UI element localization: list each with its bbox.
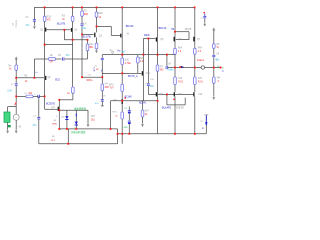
svg-text:W?2: W?2 (109, 84, 114, 86)
svg-text:BUL#R2: BUL#R2 (162, 106, 172, 109)
svg-text:7M: 7M (171, 29, 174, 31)
svg-text:BC1#5: BC1#5 (125, 97, 133, 99)
svg-text:4.7Ru: 4.7Ru (125, 63, 132, 65)
svg-text:0.68u: 0.68u (168, 70, 174, 72)
svg-text:R.01: R.01 (198, 81, 204, 83)
svg-text:(D): (D) (61, 116, 64, 118)
svg-text:0R: 0R (50, 62, 53, 64)
svg-text:BD241: BD241 (139, 102, 147, 105)
svg-text:R20: R20 (98, 12, 103, 15)
svg-text:(C): (C) (75, 127, 78, 129)
svg-text:4R?: 4R? (91, 116, 96, 118)
svg-text:BD139: BD139 (126, 25, 134, 28)
svg-text:R.01: R.01 (178, 81, 184, 83)
svg-text:RTU: RTU (113, 112, 118, 114)
svg-text:Fake1: Fake1 (197, 59, 205, 62)
svg-text:9R: 9R (67, 93, 70, 95)
svg-text:C#0: C#0 (178, 94, 183, 96)
svg-text:R#/R: R#/R (144, 34, 150, 37)
svg-text:9R: 9R (96, 69, 99, 71)
svg-text:4.8u: 4.8u (81, 27, 86, 30)
svg-text:C#1: C#1 (146, 73, 151, 75)
svg-text:W#1: W#1 (159, 94, 164, 96)
svg-text:R4u: R4u (89, 44, 94, 46)
svg-text:47u: 47u (26, 24, 31, 27)
svg-text:BC557B: BC557B (46, 102, 55, 105)
svg-text:9R1: 9R1 (89, 47, 94, 49)
svg-text:48u: 48u (215, 59, 220, 62)
svg-text:47u: 47u (66, 54, 71, 57)
svg-text:(R): (R) (52, 136, 55, 138)
svg-text:1R: 1R (103, 96, 106, 98)
svg-text:R#Ou: R#Ou (87, 80, 94, 82)
svg-text:R2R: R2R (139, 58, 144, 60)
svg-text:Ru?: Ru? (145, 110, 150, 112)
svg-text:4547B: 4547B (185, 29, 192, 31)
svg-text:BL3/7B: BL3/7B (57, 23, 66, 26)
svg-text:Ru4: Ru4 (178, 48, 183, 50)
svg-text:长防长防溃街: 长防长防溃街 (71, 130, 86, 134)
svg-text:R64: R64 (198, 48, 203, 50)
svg-text:43R: 43R (105, 87, 110, 89)
svg-text:1/R: 1/R (150, 79, 154, 81)
svg-text:BF?W_A: BF?W_A (128, 75, 138, 78)
svg-text:6k8: 6k8 (84, 13, 89, 16)
svg-text:長防溃保养: 長防溃保养 (74, 106, 87, 110)
svg-text:2N5/R2: 2N5/R2 (176, 107, 185, 109)
svg-text:220Vrms: 220Vrms (15, 20, 17, 28)
svg-text:BC5: BC5 (55, 79, 60, 82)
svg-text:M: M (25, 93, 27, 95)
svg-text:BL3/7B: BL3/7B (83, 35, 92, 38)
svg-text:~: ~ (15, 116, 17, 120)
svg-text:(#): (#) (145, 83, 148, 85)
svg-text:5uC: 5uC (125, 59, 130, 61)
svg-text:C1#: C1# (198, 94, 203, 96)
svg-text:4R: 4R (53, 120, 56, 122)
svg-text:BD140: BD140 (159, 27, 167, 30)
